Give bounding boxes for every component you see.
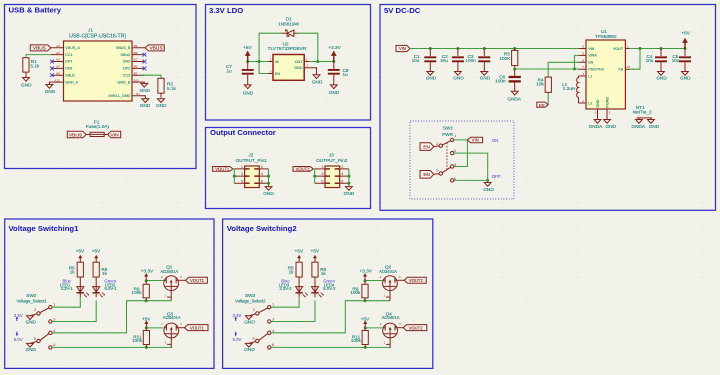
svg-text:3: 3 — [180, 322, 182, 326]
svg-text:GND: GND — [649, 124, 660, 129]
svg-text:SW2: SW2 — [26, 293, 37, 298]
svg-text:1: 1 — [53, 301, 55, 306]
svg-text:5: 5 — [306, 57, 308, 61]
svg-text:100K: 100K — [499, 56, 511, 61]
svg-text:A7: A7 — [56, 65, 60, 69]
svg-text:GND: GND — [596, 99, 600, 108]
svg-text:+5V: +5V — [681, 31, 690, 36]
svg-text:GND: GND — [312, 79, 323, 84]
svg-text:5.0V-1: 5.0V-1 — [105, 286, 118, 291]
svg-text:DN2: DN2 — [123, 60, 130, 64]
svg-text:SBU2: SBU2 — [121, 53, 131, 57]
svg-text:3.3V-2: 3.3V-2 — [279, 286, 292, 291]
svg-text:GND: GND — [605, 124, 616, 129]
svg-text:TPS63802: TPS63802 — [595, 34, 617, 39]
svg-text:B12: B12 — [134, 78, 140, 82]
svg-text:1: 1 — [454, 133, 456, 138]
svg-text:GND: GND — [263, 191, 274, 196]
svg-text:VOUT2: VOUT2 — [409, 326, 424, 331]
svg-text:PWR: PWR — [442, 132, 454, 137]
svg-text:Voltage_Select2: Voltage_Select2 — [235, 299, 266, 304]
svg-text:5.0V: 5.0V — [14, 337, 23, 342]
svg-text:3.3V: 3.3V — [14, 313, 23, 318]
svg-text:EN: EN — [275, 72, 280, 76]
svg-text:USB & Battery: USB & Battery — [9, 6, 62, 15]
svg-text:GND: GND — [656, 76, 667, 81]
svg-text:2: 2 — [307, 64, 309, 68]
svg-text:2: 2 — [582, 99, 584, 103]
svg-text:1: 1 — [165, 341, 167, 345]
svg-text:Fuse(1.0A): Fuse(1.0A) — [86, 124, 110, 129]
svg-text:10u: 10u — [412, 58, 420, 63]
svg-text:A5: A5 — [56, 51, 60, 55]
svg-text:10: 10 — [627, 65, 631, 69]
svg-text:A6: A6 — [56, 58, 60, 62]
svg-text:Q4: Q4 — [386, 312, 393, 317]
svg-text:VBUS: VBUS — [33, 46, 46, 52]
svg-text:5V DC-DC: 5V DC-DC — [384, 6, 421, 15]
svg-text:GND: GND — [140, 103, 151, 108]
svg-text:6: 6 — [261, 178, 263, 183]
svg-text:Q1: Q1 — [166, 265, 173, 270]
svg-text:GND_A: GND_A — [65, 80, 78, 84]
svg-text:CC1: CC1 — [65, 53, 72, 57]
svg-text:DP1: DP1 — [65, 60, 72, 64]
svg-text:J1: J1 — [88, 27, 93, 32]
svg-text:GND: GND — [25, 347, 36, 352]
svg-text:GND: GND — [45, 89, 56, 94]
svg-text:5.1k: 5.1k — [167, 86, 177, 91]
svg-text:100k: 100k — [131, 290, 142, 295]
svg-text:5: 5 — [241, 178, 243, 183]
svg-text:3: 3 — [53, 316, 55, 321]
svg-text:GND: GND — [483, 187, 494, 192]
svg-text:GNDA: GNDA — [631, 124, 645, 129]
svg-text:VOUT1: VOUT1 — [215, 167, 230, 172]
svg-text:1: 1 — [627, 45, 629, 49]
svg-text:OUTPUT_Pin2: OUTPUT_Pin2 — [316, 158, 348, 163]
svg-text:VOUT2: VOUT2 — [296, 167, 311, 172]
svg-text:+3.3V: +3.3V — [141, 269, 154, 274]
svg-text:Q2: Q2 — [385, 265, 392, 270]
svg-text:GND: GND — [243, 91, 254, 96]
svg-text:3: 3 — [270, 69, 272, 73]
svg-text:10u: 10u — [646, 58, 654, 63]
svg-text:Voltage Switching2: Voltage Switching2 — [227, 224, 297, 233]
svg-text:6: 6 — [53, 342, 55, 347]
svg-text:SW1: SW1 — [443, 126, 454, 131]
svg-text:OFF: OFF — [492, 174, 501, 179]
svg-text:VIN: VIN — [472, 138, 479, 143]
svg-text:3: 3 — [609, 111, 611, 115]
svg-text:USB-C[CSP-USC16-TR]: USB-C[CSP-USC16-TR] — [69, 33, 126, 39]
svg-text:1N5819W: 1N5819W — [278, 21, 299, 26]
svg-text:1k: 1k — [70, 269, 76, 274]
svg-text:9: 9 — [582, 51, 584, 55]
svg-text:OUTPUT_Pin1: OUTPUT_Pin1 — [236, 158, 268, 163]
svg-text:EN: EN — [423, 172, 430, 177]
svg-text:1u: 1u — [343, 72, 349, 77]
svg-text:GND: GND — [25, 319, 36, 324]
svg-text:VOUT1: VOUT1 — [190, 326, 205, 331]
svg-text:L1: L1 — [588, 74, 592, 78]
svg-text:100n: 100n — [465, 58, 476, 63]
svg-text:DN1: DN1 — [65, 67, 72, 71]
svg-text:GNDA: GNDA — [508, 96, 522, 101]
svg-text:6: 6 — [595, 111, 597, 115]
svg-text:10k: 10k — [536, 82, 544, 87]
svg-text:U2: U2 — [283, 41, 289, 46]
svg-text:4: 4 — [582, 72, 584, 76]
svg-text:A8: A8 — [56, 71, 60, 75]
svg-text:VOUT1: VOUT1 — [190, 278, 205, 283]
svg-text:EN: EN — [539, 102, 545, 107]
svg-text:1: 1 — [270, 57, 272, 61]
svg-text:GND: GND — [329, 90, 340, 95]
svg-text:VINA: VINA — [588, 54, 597, 58]
svg-text:3: 3 — [180, 275, 182, 279]
svg-text:VIN: VIN — [588, 47, 594, 51]
svg-text:EN: EN — [588, 61, 593, 65]
svg-text:1u: 1u — [226, 69, 232, 74]
svg-text:GND_B: GND_B — [117, 80, 130, 84]
svg-text:Voltage Switching1: Voltage Switching1 — [9, 224, 80, 233]
svg-text:SBU1: SBU1 — [65, 73, 75, 77]
svg-text:10u: 10u — [440, 58, 448, 63]
svg-text:AO3401A: AO3401A — [160, 269, 178, 274]
svg-text:2.2uH: 2.2uH — [563, 86, 576, 91]
svg-text:10u: 10u — [672, 58, 680, 63]
svg-text:Output Connector: Output Connector — [210, 128, 276, 137]
svg-text:VBUS_B: VBUS_B — [116, 46, 131, 50]
svg-text:GND: GND — [156, 103, 167, 108]
svg-text:PS/SYNC: PS/SYNC — [588, 68, 605, 72]
svg-text:1k: 1k — [102, 271, 108, 276]
svg-text:ON: ON — [492, 138, 499, 143]
svg-text:1: 1 — [164, 293, 166, 297]
svg-text:GND: GND — [140, 88, 151, 93]
svg-text:3.3V LDO: 3.3V LDO — [209, 6, 243, 15]
svg-text:L2: L2 — [588, 101, 592, 105]
svg-text:GND: GND — [480, 76, 491, 81]
svg-text:EN: EN — [423, 144, 430, 149]
svg-text:TLV75733PDBVR: TLV75733PDBVR — [267, 46, 307, 52]
svg-text:1: 1 — [241, 164, 243, 169]
svg-text:SW3: SW3 — [245, 293, 256, 298]
svg-text:VBUS: VBUS — [149, 46, 162, 52]
svg-text:NetTie_2: NetTie_2 — [633, 110, 652, 115]
svg-text:+5V: +5V — [92, 248, 101, 253]
svg-text:CC2: CC2 — [123, 73, 130, 77]
svg-text:5.0V-2: 5.0V-2 — [323, 286, 336, 291]
svg-text:GND: GND — [294, 66, 303, 70]
svg-text:GND: GND — [21, 83, 32, 88]
svg-text:VBUS_A: VBUS_A — [65, 46, 80, 50]
svg-text:100k: 100k — [132, 338, 143, 343]
svg-text:+5V: +5V — [76, 248, 85, 253]
svg-text:A9: A9 — [56, 44, 60, 48]
svg-text:GND: GND — [426, 76, 437, 81]
svg-text:GND: GND — [680, 76, 691, 81]
svg-text:3: 3 — [454, 148, 456, 153]
svg-text:3: 3 — [241, 171, 243, 176]
svg-text:2: 2 — [34, 307, 36, 312]
svg-text:VIN: VIN — [111, 132, 120, 138]
svg-text:SHELL_GND: SHELL_GND — [108, 94, 130, 98]
svg-text:B7: B7 — [134, 58, 138, 62]
svg-text:8: 8 — [582, 58, 584, 62]
svg-text:5: 5 — [436, 167, 438, 172]
svg-text:J2: J2 — [248, 152, 253, 157]
svg-text:2: 2 — [161, 275, 163, 279]
svg-text:B8: B8 — [134, 51, 138, 55]
svg-text:VBUS: VBUS — [69, 132, 83, 138]
svg-text:DP2: DP2 — [123, 67, 130, 71]
svg-text:5: 5 — [582, 45, 584, 49]
svg-text:Voltage_Select1: Voltage_Select1 — [16, 299, 47, 304]
svg-text:GNDA: GNDA — [589, 124, 603, 129]
svg-text:7: 7 — [582, 65, 584, 69]
svg-text:IN: IN — [275, 60, 279, 64]
svg-text:100n: 100n — [495, 79, 506, 84]
svg-text:VOUT: VOUT — [613, 47, 624, 51]
svg-text:2: 2 — [161, 322, 163, 326]
svg-text:2: 2 — [261, 164, 263, 169]
svg-text:GND: GND — [453, 76, 464, 81]
svg-text:J3: J3 — [329, 152, 334, 157]
svg-text:5.1k: 5.1k — [30, 63, 40, 68]
svg-text:Q3: Q3 — [167, 312, 174, 317]
svg-text:OUT: OUT — [295, 60, 304, 64]
svg-text:B5: B5 — [134, 71, 138, 75]
svg-text:PGND: PGND — [606, 97, 610, 108]
svg-text:+3.3V: +3.3V — [328, 45, 341, 50]
svg-text:5: 5 — [34, 336, 36, 341]
svg-text:3.3V-1: 3.3V-1 — [61, 286, 74, 291]
svg-text:VIN: VIN — [399, 46, 406, 51]
svg-text:B9: B9 — [134, 44, 138, 48]
svg-text:+5V: +5V — [243, 45, 252, 50]
svg-text:A12: A12 — [54, 78, 60, 82]
svg-text:FB: FB — [618, 68, 623, 72]
svg-text:2: 2 — [436, 141, 438, 146]
svg-text:VOUT2: VOUT2 — [409, 278, 424, 283]
svg-text:B6: B6 — [134, 65, 138, 69]
